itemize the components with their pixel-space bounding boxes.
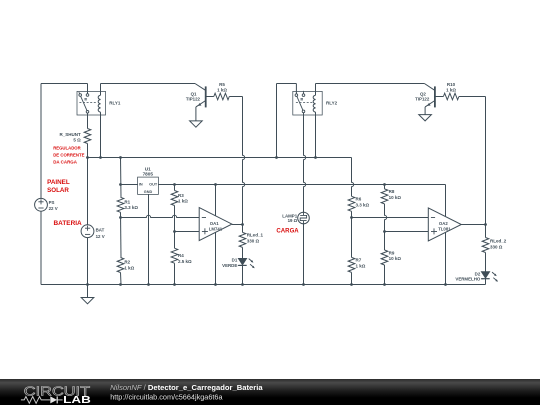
svg-text:OUT: OUT	[149, 183, 158, 187]
svg-text:http://circuitlab.com/c5664jkg: http://circuitlab.com/c5664jkga6t6a	[110, 392, 223, 401]
svg-text:12 V: 12 V	[96, 234, 105, 239]
wire U1 IN	[121, 184, 138, 186]
svg-text:BAT: BAT	[96, 228, 105, 233]
wire OA1 V- pin	[215, 233, 217, 285]
svg-text:VERDE: VERDE	[222, 263, 237, 268]
svg-text:TL081: TL081	[438, 227, 451, 232]
relay RLY2 box	[293, 91, 322, 115]
svg-text:PS: PS	[49, 200, 55, 205]
svg-text:22 V: 22 V	[49, 206, 58, 211]
relay RLY1 coil	[98, 95, 100, 112]
resistor R2	[117, 258, 124, 273]
node rail at R8	[383, 183, 386, 186]
wire OA2 V+ pin	[445, 185, 447, 217]
svg-text:OA2: OA2	[439, 221, 448, 226]
wire R5 to OA1 output	[229, 96, 242, 98]
svg-text:LAB: LAB	[63, 394, 91, 405]
svg-text:R9: R9	[389, 250, 395, 255]
wire R8 top stub	[384, 185, 386, 189]
node R1-R2 junction	[119, 216, 122, 219]
wire R1 to R2	[120, 212, 123, 257]
svg-text:CARGA: CARGA	[276, 228, 299, 234]
svg-text:R8: R8	[389, 189, 395, 194]
node ground bus junctions	[86, 283, 89, 286]
svg-text:REGULADOR: REGULADOR	[53, 146, 81, 151]
svg-text:1 kΩ: 1 kΩ	[217, 88, 227, 93]
node RLY2 branch at bus	[275, 156, 278, 159]
wire D1 to ground bus	[242, 265, 244, 284]
wire R4 to ground bus	[174, 263, 176, 284]
resistor R8	[381, 189, 388, 204]
resistor R5	[214, 93, 229, 100]
svg-text:DA CARGA: DA CARGA	[53, 159, 77, 164]
svg-text:R7: R7	[356, 258, 362, 263]
LED D2 VERMELHO	[481, 272, 489, 279]
node rail at R3	[173, 183, 176, 186]
wire R10 to OA2 output	[459, 96, 486, 98]
wire RLY1 coil bottom to bus	[100, 112, 102, 157]
svg-text:1 kΩ: 1 kΩ	[356, 264, 366, 269]
wire RLY1 switch bottom to R_SHUNT	[87, 113, 89, 128]
LED D1 light arrows	[249, 259, 253, 262]
relay RLY2 switch armature	[297, 96, 303, 110]
wire OA2 output to RLed_2	[485, 225, 487, 238]
wire R_SHUNT bottom to battery	[87, 144, 89, 225]
LED D1 VERDE	[238, 258, 246, 265]
relay RLY2 dashed link	[296, 102, 313, 104]
wire OA1 output	[232, 224, 243, 226]
svg-text:VERMELHO: VERMELHO	[455, 277, 480, 282]
svg-text:R_SHUNT: R_SHUNT	[60, 132, 82, 137]
wire Q1 base	[206, 96, 214, 98]
node bus at R_SHUNT column	[86, 156, 89, 159]
wire OA2 output	[461, 224, 485, 226]
ground symbol Q2 emitter	[419, 115, 432, 121]
relay RLY1 box	[77, 91, 106, 115]
svg-text:RLY2: RLY2	[326, 100, 338, 105]
wire RLY2 coil bottom to bus	[315, 112, 317, 157]
svg-text:D2: D2	[475, 271, 481, 276]
svg-text:R5: R5	[219, 82, 225, 87]
wire R1 column from bus	[120, 158, 123, 198]
svg-text:U1: U1	[145, 166, 151, 171]
wire 5V rail from U1 OUT	[158, 184, 445, 186]
voltage source BAT (12 V battery)	[81, 225, 94, 238]
wire positive bus	[88, 157, 352, 159]
relay RLY1 switch armature	[79, 92, 87, 111]
wire OA1 plus input	[175, 231, 200, 233]
wire PS bottom to ground bus	[40, 211, 42, 284]
relay RLY2 switch contacts	[295, 94, 298, 97]
wire OA2 minus input	[352, 217, 429, 219]
wire top rail RLY1-coil to Q1	[101, 83, 196, 85]
relay RLY1 switch contacts	[79, 94, 82, 97]
wire RLY2 coil top pin	[315, 84, 317, 96]
wire RLY2 switch top pin	[295, 84, 297, 94]
relay RLY2 coil	[313, 95, 315, 112]
wire Q2 base	[435, 96, 444, 98]
svg-text:19 Ω: 19 Ω	[288, 218, 298, 223]
node R3-R4 junction to OA1 plus	[173, 230, 176, 233]
wire RLY2 switch to LAMP1	[304, 113, 306, 213]
transistor Q2 TIP122	[424, 84, 435, 91]
wire RLed_1 to D1	[242, 247, 244, 258]
node rail at OA1 V+	[214, 183, 217, 186]
node OA1 output junction	[241, 223, 244, 226]
svg-text:R2: R2	[124, 260, 130, 265]
node U1 input tap	[119, 183, 122, 186]
wire D2 to ground bus	[485, 279, 487, 285]
svg-text:TIP122: TIP122	[415, 97, 430, 102]
svg-text:BATERIA: BATERIA	[54, 220, 82, 227]
wire RLY2 left branch	[276, 84, 278, 158]
relay RLY1 equals mark	[84, 98, 87, 100]
wire OA1 minus input	[121, 215, 199, 217]
resistor R9	[381, 250, 388, 265]
svg-text:R10: R10	[447, 82, 456, 87]
node R8-R9 junction	[383, 230, 386, 233]
wire R9 to ground bus	[384, 265, 386, 285]
svg-text:LM741: LM741	[209, 226, 223, 231]
svg-text:3.3 kΩ: 3.3 kΩ	[356, 202, 370, 207]
node OA2 output junction	[484, 223, 487, 226]
op-amp OA2 TL081	[428, 208, 461, 241]
lamp LAMP1 19 ohm	[298, 212, 310, 224]
svg-text:D1: D1	[232, 258, 238, 263]
node bus at R1 column	[119, 156, 122, 159]
svg-text:3.3 kΩ: 3.3 kΩ	[124, 205, 138, 210]
svg-text:R3: R3	[178, 193, 184, 198]
wire R3 top stub	[174, 185, 176, 191]
resistor RLed_1	[239, 232, 246, 247]
relay RLY2 equals mark	[301, 98, 304, 100]
svg-text:NilsonNF / Detector_e_Carregad: NilsonNF / Detector_e_Carregador_Bateria	[110, 383, 263, 392]
transistor Q1 TIP122	[195, 84, 206, 91]
wire RLY1 coil top pin	[100, 84, 102, 96]
wire U1 GND to ground bus	[148, 194, 150, 284]
svg-text:RLed_2: RLed_2	[490, 239, 507, 244]
svg-text:SOLAR: SOLAR	[47, 187, 69, 194]
svg-text:330 Ω: 330 Ω	[247, 238, 260, 243]
svg-text:10 kΩ: 10 kΩ	[389, 195, 402, 200]
ground symbol Q1 emitter	[190, 121, 203, 127]
wire bus corner to R6	[352, 158, 354, 197]
svg-text:OA1: OA1	[210, 221, 219, 226]
wire R8 to R9	[385, 204, 387, 250]
wire OA1 V+ pin	[215, 185, 217, 216]
CircuitLab logo diode	[50, 396, 57, 403]
svg-text:10 kΩ: 10 kΩ	[389, 256, 402, 261]
svg-text:R1: R1	[124, 199, 130, 204]
footer bar	[0, 379, 540, 405]
wire LAMP1 to ground bus	[303, 224, 305, 285]
svg-text:1 kΩ: 1 kΩ	[124, 265, 134, 270]
resistor R_SHUNT	[84, 129, 91, 144]
svg-text:5 Ω: 5 Ω	[73, 138, 81, 143]
wire OA2 plus input	[385, 231, 429, 233]
svg-text:R6: R6	[356, 197, 362, 202]
svg-text:R4: R4	[178, 253, 184, 258]
regulator U1 7805 box	[138, 177, 159, 194]
node R6-R7 junction	[350, 216, 353, 219]
wire ground bus	[41, 284, 486, 286]
wire R7 to ground bus	[351, 272, 353, 284]
svg-text:IN: IN	[139, 183, 143, 187]
node bus at RLY2 coil	[314, 156, 317, 159]
wire RLed_2 to D2	[485, 253, 487, 272]
svg-text:330 Ω: 330 Ω	[490, 245, 503, 250]
op-amp OA1 LM741	[199, 208, 232, 241]
voltage source PS (PAINEL SOLAR 22 V)	[35, 198, 48, 211]
svg-text:GND: GND	[144, 190, 153, 194]
wire OA2 V- pin	[445, 233, 447, 285]
svg-text:TIP122: TIP122	[186, 97, 201, 102]
resistor R10	[443, 93, 459, 100]
wire top rail left segment	[41, 83, 88, 85]
svg-text:7805: 7805	[143, 172, 154, 177]
resistor R6	[348, 196, 355, 211]
resistor R1	[117, 197, 124, 212]
resistor RLed_2	[482, 238, 489, 253]
svg-text:RLed_1: RLed_1	[247, 233, 264, 238]
wire R2 to ground bus	[120, 273, 123, 285]
relay RLY2 contact stub	[303, 91, 305, 94]
LED D2 light arrows	[492, 272, 496, 275]
resistor R3	[171, 191, 178, 206]
wire RLY1 switch top pin	[87, 84, 89, 94]
relay RLY1 dashed link	[79, 102, 96, 104]
svg-text:PAINEL: PAINEL	[47, 179, 70, 186]
svg-text:Q2: Q2	[420, 91, 426, 96]
wire solar panel column top	[40, 84, 42, 199]
wire R6 to R7	[351, 211, 353, 257]
svg-text:2.5 kΩ: 2.5 kΩ	[178, 259, 192, 264]
svg-text:1 kΩ: 1 kΩ	[178, 199, 188, 204]
resistor R7	[348, 257, 355, 272]
svg-text:RLY1: RLY1	[109, 100, 121, 105]
node bus at RLY1 coil	[99, 156, 102, 159]
svg-text:DE CORRENTE: DE CORRENTE	[53, 153, 84, 158]
wire top rail RLY2-coil to Q2	[316, 83, 425, 85]
ground symbol main	[87, 285, 89, 298]
CircuitLab logo resistor zigzag	[21, 396, 50, 403]
wire R3 to R4	[174, 206, 176, 249]
wire top rail RLY2 segment	[277, 83, 297, 85]
wire OA1 output to RLed_1	[242, 225, 244, 233]
wire BAT bottom to ground bus	[87, 238, 89, 285]
svg-text:1 kΩ: 1 kΩ	[446, 88, 456, 93]
resistor R4	[171, 248, 178, 263]
